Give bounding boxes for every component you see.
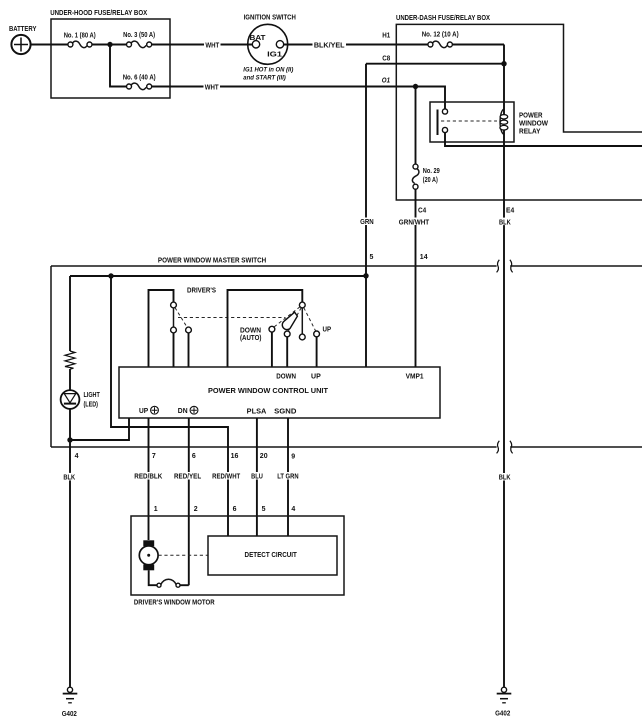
svg-text:IG1 HOT in ON (II): IG1 HOT in ON (II) [243, 67, 293, 74]
svg-text:G402: G402 [495, 710, 510, 717]
under-hood fuse/relay box [50, 10, 170, 98]
switch SW1 dashed throw [175, 308, 187, 328]
label DOWN (AUTO) [240, 328, 261, 343]
wire LED to ground junction [69, 409, 71, 447]
svg-text:UNDER-HOOD FUSE/RELAY BOX: UNDER-HOOD FUSE/RELAY BOX [50, 10, 147, 17]
LED D1 light [61, 390, 101, 409]
svg-text:O1: O1 [382, 77, 390, 84]
driver's switch left feed bracket [149, 290, 174, 367]
svg-text:WHT: WHT [205, 42, 220, 49]
svg-text:(20 A): (20 A) [423, 177, 438, 184]
svg-text:No. 1 (80 A): No. 1 (80 A) [64, 32, 96, 39]
wire SW1 contact B to control unit [188, 333, 190, 367]
label BLK right lower [498, 473, 513, 482]
svg-text:No. 12 (10 A): No. 12 (10 A) [422, 32, 459, 39]
svg-text:4: 4 [75, 453, 79, 460]
power window relay box [430, 102, 548, 142]
connector hop left terminal [157, 583, 161, 587]
wire C8 row [366, 63, 504, 65]
svg-text:4: 4 [291, 506, 295, 513]
label RED/YEL [173, 472, 203, 480]
wire LT GRN pin 9 to detect circuit [287, 418, 289, 536]
node junction dot rail/motor-up branch [108, 273, 113, 278]
SECTION: under-dash box [359, 15, 642, 687]
wire DOWN(AUTO) contact to control unit [271, 332, 273, 367]
switch SW2 solid throw [301, 308, 303, 334]
break mark top left of BLK wire [497, 260, 500, 273]
relay coil L1 [500, 109, 508, 135]
svg-text:GRN: GRN [360, 219, 374, 226]
label RED/BLK [133, 472, 164, 480]
node junction dot O1/No.29 [413, 84, 418, 89]
fuse No.29 (20 A) [412, 87, 440, 190]
dashed mechanical coupler [178, 317, 285, 319]
fuse No.1 (80 A) [64, 32, 96, 47]
fuse No.3 (50 A) [123, 32, 155, 48]
dashed mechanical link motor to detect [159, 554, 209, 556]
wire BLK/YEL ignition to under-dash H1 [283, 44, 428, 46]
svg-text:(LED): (LED) [84, 401, 99, 408]
svg-text:9: 9 [291, 454, 295, 461]
wire GRN C8 to master switch pin 5 [365, 64, 367, 367]
svg-text:(AUTO): (AUTO) [240, 335, 261, 342]
power window master switch box [51, 257, 642, 447]
switch SW2 dashed throw to UP [304, 308, 316, 332]
svg-text:1: 1 [154, 506, 158, 513]
svg-text:H1: H1 [382, 32, 390, 39]
svg-text:2: 2 [194, 506, 198, 513]
switch SW2 contact UP [314, 331, 320, 337]
relay contact bottom [442, 127, 447, 132]
break mark bottom right of BLK wire [510, 441, 513, 454]
node junction dot at x110 [107, 42, 112, 47]
wire WHT fuse3 to ignition switch BAT [152, 44, 254, 46]
svg-text:LT GRN: LT GRN [277, 473, 298, 480]
pin label UP with polarity symbol [139, 406, 158, 415]
break mark bottom left of BLK wire [497, 441, 500, 454]
wire hop to pin 2 riser [180, 584, 189, 586]
SECTION: master switch [51, 254, 642, 687]
svg-text:BLK: BLK [63, 474, 75, 481]
fuse No.12 (10 A) [422, 32, 459, 48]
svg-text:5: 5 [262, 506, 266, 513]
label BLK left [62, 473, 76, 482]
wire LED branch upper [69, 276, 71, 351]
svg-text:No. 6 (40 A): No. 6 (40 A) [123, 75, 156, 82]
svg-text:7: 7 [152, 453, 156, 460]
ignition switch body [248, 24, 288, 64]
svg-text:G402: G402 [62, 711, 77, 718]
svg-text:16: 16 [231, 453, 239, 460]
svg-text:GRN/WHT: GRN/WHT [399, 219, 430, 226]
switch SW2 dashed throw to DOWN [288, 308, 301, 332]
note IG1 HOT in ON (II) and START (III) [243, 67, 293, 82]
detect circuit box [208, 536, 337, 575]
wire motor bottom to connector hop [149, 570, 157, 585]
svg-text:RED/BLK: RED/BLK [134, 473, 162, 480]
relay armature bar [437, 110, 439, 136]
label BLK/YEL [313, 41, 347, 49]
wire DOWN contact to control unit [286, 337, 288, 367]
switch SW2 dashed throw to DOWN(AUTO) [274, 307, 300, 327]
battery B1 [9, 26, 37, 54]
power window control unit box U1 [119, 367, 440, 418]
svg-text:PLSA: PLSA [247, 409, 267, 416]
svg-text:SGND: SGND [274, 409, 296, 416]
wire relay output to right edge [445, 133, 642, 146]
ignition switch terminals and labels [244, 14, 296, 58]
svg-text:BLK: BLK [499, 220, 511, 227]
wire BLU pin 20 to detect circuit [256, 418, 258, 536]
break mark top right of BLK wire [510, 260, 513, 273]
wire GRN/WHT No.29 to master switch pin 14 [415, 189, 417, 367]
svg-text:DOWN: DOWN [276, 373, 296, 380]
label GRN wire [359, 218, 376, 227]
switch SW2 contact DOWN(AUTO) [269, 326, 275, 332]
svg-text:RELAY: RELAY [519, 129, 541, 136]
wire SW1 contact A to control unit [173, 333, 175, 367]
label WHT lower [204, 83, 221, 91]
ground G402 right [495, 687, 511, 717]
wire battery to under-hood box [31, 44, 68, 46]
switch SW1 contact A [171, 327, 177, 333]
node junction dot rail/pin5 [363, 273, 368, 278]
svg-text:DETECT CIRCUIT: DETECT CIRCUIT [245, 552, 298, 559]
svg-text:BLK/YEL: BLK/YEL [314, 42, 345, 49]
svg-text:WINDOW: WINDOW [519, 121, 548, 128]
label BLU [250, 472, 265, 480]
svg-text:BATTERY: BATTERY [9, 26, 37, 33]
switch SW1 solid throw [173, 308, 175, 327]
wire from junction down to fuse No.6 [110, 45, 127, 87]
svg-text:E4: E4 [506, 208, 514, 215]
under-dash fuse/relay box outline [396, 15, 642, 200]
svg-text:6: 6 [192, 453, 196, 460]
svg-text:No. 29: No. 29 [423, 168, 440, 175]
wire UP contact to control unit [316, 337, 318, 367]
label BLK wire upper right [498, 218, 513, 227]
driver's switch right feed bracket [228, 290, 303, 367]
svg-text:RED/WHT: RED/WHT [212, 473, 241, 480]
svg-text:DN: DN [178, 408, 188, 415]
svg-text:WHT: WHT [205, 84, 220, 91]
switch SW1 contact B [186, 327, 192, 333]
connector hop right terminal [176, 583, 180, 587]
relay dashed link armature to coil [441, 120, 497, 122]
svg-text:C8: C8 [382, 55, 390, 62]
node junction dot LED/ground rail [67, 437, 72, 442]
svg-text:5: 5 [370, 254, 374, 261]
svg-text:IG1: IG1 [267, 51, 282, 58]
svg-text:14: 14 [420, 254, 428, 261]
svg-text:No. 3 (50 A): No. 3 (50 A) [123, 32, 155, 39]
fuse No.6 (40 A) [123, 75, 156, 90]
svg-text:UNDER-DASH FUSE/RELAY BOX: UNDER-DASH FUSE/RELAY BOX [396, 15, 490, 22]
svg-text:C4: C4 [418, 207, 426, 214]
resistor R1 [65, 351, 75, 369]
svg-text:DRIVER'S: DRIVER'S [187, 287, 216, 294]
svg-text:IGNITION SWITCH: IGNITION SWITCH [244, 14, 296, 21]
svg-text:DOWN: DOWN [240, 328, 261, 335]
motor M1 [139, 540, 158, 570]
wire motor-up branch to pin 16 [111, 276, 228, 536]
driver's window motor box [131, 516, 344, 607]
wire RED/BLK pin 7 to motor [148, 418, 150, 540]
connector hop arc [161, 579, 176, 584]
switch SW2 pivot [299, 302, 305, 308]
ground G402 left [62, 687, 78, 718]
svg-text:BLK: BLK [499, 475, 511, 482]
svg-text:POWER: POWER [519, 113, 543, 120]
SECTION: grounds [62, 687, 512, 718]
wire BLK coil feed vertical x504 down to ground [503, 45, 505, 687]
svg-text:UP: UP [311, 373, 321, 380]
svg-text:BLU: BLU [251, 473, 263, 480]
wire RED/YEL pin 6 to motor [188, 418, 190, 585]
svg-text:20: 20 [260, 453, 268, 460]
pin label DN with polarity symbol [178, 406, 198, 415]
svg-text:UP: UP [139, 408, 149, 415]
relay contact top [442, 109, 447, 114]
svg-text:POWER WINDOW MASTER SWITCH: POWER WINDOW MASTER SWITCH [158, 257, 266, 264]
svg-text:VMP1: VMP1 [406, 374, 424, 381]
wire WHT row O1 to relay contact [152, 87, 445, 109]
switch SW2 center contact [299, 334, 305, 340]
wire BLK pin 4 to ground [69, 447, 71, 687]
label RED/WHT [211, 472, 242, 480]
switch SW1 pivot [171, 302, 177, 308]
label WHT [204, 41, 221, 49]
SECTION: control unit [119, 367, 440, 585]
wire fuse12 to relay coil drop [452, 44, 504, 46]
switch SW2 contact DOWN [284, 331, 290, 337]
svg-text:LIGHT: LIGHT [84, 392, 101, 399]
node junction dot C8/coil [501, 61, 506, 66]
label LT GRN [276, 472, 299, 480]
svg-text:POWER WINDOW CONTROL UNIT: POWER WINDOW CONTROL UNIT [208, 388, 329, 395]
label GRN/WHT wire [397, 218, 430, 227]
svg-text:BAT: BAT [250, 35, 267, 42]
svg-text:RED/YEL: RED/YEL [174, 473, 202, 480]
wire resistor to LED [69, 369, 71, 390]
SECTION: top feed row [9, 10, 445, 109]
wire ground rail to control unit [70, 418, 129, 440]
svg-text:UP: UP [323, 327, 332, 334]
SECTION: motor and detect [131, 506, 344, 607]
svg-text:6: 6 [233, 506, 237, 513]
switch SW2 lever knob [282, 312, 297, 329]
svg-text:DRIVER'S WINDOW MOTOR: DRIVER'S WINDOW MOTOR [134, 600, 215, 607]
wire fuse1 to junction to fuse3 [92, 44, 127, 46]
svg-text:and START (III): and START (III) [243, 75, 285, 82]
wire internal feed rail y276 [70, 275, 366, 277]
